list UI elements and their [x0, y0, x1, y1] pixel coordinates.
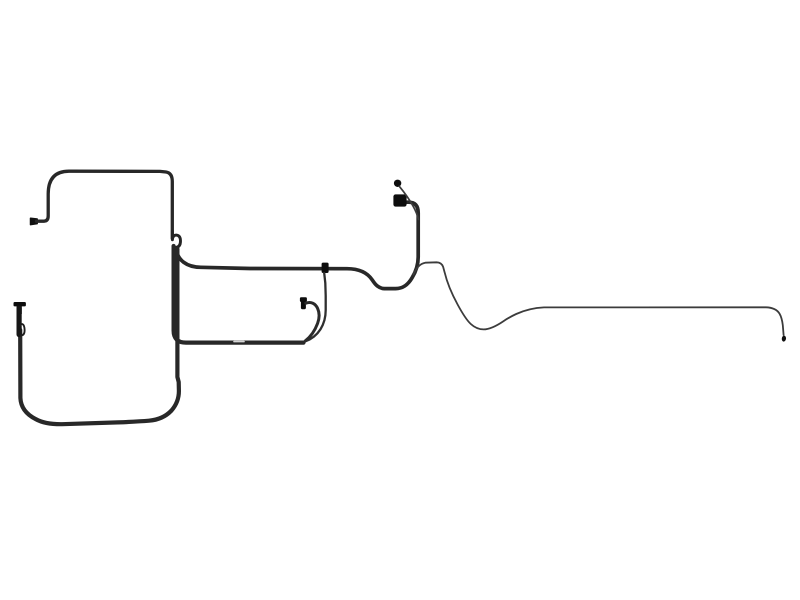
harness line end bulb	[781, 335, 786, 342]
left tee pin fitting (black push pin, cap + stem)	[14, 302, 26, 306]
main loop tube (fitting up over top and down right side)	[37, 171, 173, 238]
specular highlight on lower horizontal run	[234, 341, 244, 343]
clip drop line curving into lower horizontal run	[305, 273, 326, 341]
tube end fitting F1 (left nozzle)	[31, 218, 38, 224]
connector cap (black dot above block)	[394, 180, 401, 187]
thin harness line wiggling right from junction	[413, 262, 783, 335]
mid horizontal tube with dip, rising to connector stem	[176, 202, 418, 288]
hairpin curl notch on right of stem	[20, 324, 24, 335]
connector block U1 (black square)	[393, 194, 406, 206]
tee pin tube curling into lower horizontal run	[305, 302, 319, 340]
vertical tube (right of pair) feeding bottom loop	[20, 249, 179, 424]
vertical tube (left of pair) feeding lower-mid horizontal run	[174, 246, 304, 343]
pin stem tube (dark column)	[17, 308, 22, 335]
thin lead from cap dot down to tube stem	[399, 186, 418, 219]
curled tube end at base of right-side drop	[172, 231, 180, 252]
retaining clip on mid tube	[322, 263, 329, 273]
tee pin fitting (small black pin)	[300, 297, 307, 302]
